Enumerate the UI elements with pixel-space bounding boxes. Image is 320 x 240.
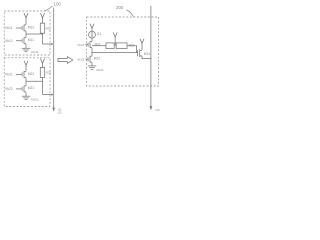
lower gate wire xyxy=(92,52,138,54)
supply arrow (mid tap) xyxy=(113,32,117,37)
wire xyxy=(25,44,27,48)
wire xyxy=(25,78,27,86)
bus arrowhead bottom left xyxy=(52,108,55,112)
wire xyxy=(42,33,44,44)
gate lead Vb11 xyxy=(16,27,22,28)
supply arrow (box1 resistor branch) xyxy=(41,13,45,18)
resistor R21 (circuit 200) xyxy=(106,43,114,49)
wire xyxy=(91,63,93,66)
gate lead Vb22 xyxy=(16,88,22,89)
svg-text:M24: M24 xyxy=(144,52,150,56)
wire xyxy=(25,18,27,25)
gate lead Vb12 xyxy=(16,40,22,41)
svg-text:Vb12: Vb12 xyxy=(5,39,13,43)
wire xyxy=(91,38,93,41)
svg-text:I12: I12 xyxy=(58,111,62,115)
ground AG21 (box2) xyxy=(22,96,30,99)
transistor M24 xyxy=(138,49,142,57)
transistor M21 (box2 lower) xyxy=(22,86,26,93)
svg-text:200: 200 xyxy=(116,5,124,10)
dashed box circuit 120 (left bottom) xyxy=(4,58,50,107)
svg-text:Vb21: Vb21 xyxy=(5,73,13,77)
transistor M21 (circuit 200) xyxy=(85,41,92,48)
supply arrow (box1 stack) xyxy=(24,13,28,18)
block arrow between circuits xyxy=(58,57,73,64)
output arrow of box2 to bus xyxy=(43,94,54,96)
svg-text:AG11: AG11 xyxy=(31,50,39,54)
ground AG11 xyxy=(22,48,30,51)
node wire (box2) xyxy=(26,80,43,82)
wire xyxy=(25,31,27,37)
right output bus wire xyxy=(150,6,152,107)
wire xyxy=(42,18,44,23)
svg-text:Vb22: Vb22 xyxy=(77,58,84,62)
supply arrow (box2 stack) xyxy=(24,61,28,66)
node junction box2 xyxy=(42,81,43,82)
resistor R21 (box2) xyxy=(40,67,44,77)
bus arrowhead bottom right xyxy=(150,106,153,110)
svg-text:M11: M11 xyxy=(28,38,34,42)
svg-text:Vb22: Vb22 xyxy=(5,87,13,91)
svg-text:R11: R11 xyxy=(46,27,52,31)
supply arrow (circuit 200 left stack) xyxy=(90,24,94,29)
supply arrow (box2 resistor branch) xyxy=(41,59,45,64)
node wire (box1) xyxy=(26,33,43,35)
current source I21 xyxy=(89,31,96,38)
wire (to gate, with bend) xyxy=(127,46,137,53)
ground AG21 (circuit 200) xyxy=(88,66,96,69)
leader line to label 200 xyxy=(127,10,134,17)
transistor M22 (circuit 200) xyxy=(85,56,92,63)
output arrow of box1 to bus xyxy=(43,43,54,45)
svg-text:Vb21: Vb21 xyxy=(77,43,84,47)
dashed box circuit 110 (left top) xyxy=(4,11,50,55)
dashed box circuit 200 (right) xyxy=(87,17,159,86)
svg-text:I21: I21 xyxy=(97,32,102,36)
wire (M24 drain) xyxy=(141,43,143,50)
resistor R11 xyxy=(40,23,44,33)
gate lead Vb21 xyxy=(16,74,22,75)
svg-text:M21: M21 xyxy=(28,86,35,90)
wire xyxy=(91,48,93,56)
svg-text:AG21: AG21 xyxy=(31,98,39,102)
svg-text:M12: M12 xyxy=(28,25,35,29)
transistor M12 xyxy=(22,25,26,32)
svg-text:M22: M22 xyxy=(94,57,100,61)
node junction (gate wire) xyxy=(91,52,92,53)
left output bus wire xyxy=(53,8,55,109)
svg-text:M22: M22 xyxy=(28,72,35,76)
node junction box1 xyxy=(42,33,43,34)
transistor M11 xyxy=(22,37,26,44)
upper bias wire xyxy=(92,45,106,47)
svg-text:R21: R21 xyxy=(46,71,52,75)
wire xyxy=(42,77,44,94)
svg-text:Vb11: Vb11 xyxy=(5,26,13,30)
transistor M22 (box2 upper) xyxy=(22,71,26,78)
node junction output bus xyxy=(150,58,151,59)
wire xyxy=(25,92,27,96)
leader line to label 100 xyxy=(44,6,53,11)
wire xyxy=(25,65,27,71)
wire xyxy=(42,63,44,67)
svg-text:I22: I22 xyxy=(155,108,160,112)
wire (mid tap) xyxy=(114,37,116,46)
wire xyxy=(91,28,93,31)
svg-text:AG21: AG21 xyxy=(96,68,104,72)
svg-text:100: 100 xyxy=(54,2,62,7)
supply arrow (M24) xyxy=(140,39,144,44)
resistor R22 xyxy=(116,43,127,49)
wire (M24 source to output bus) xyxy=(142,56,151,59)
